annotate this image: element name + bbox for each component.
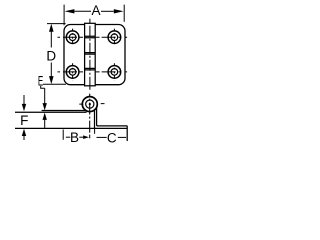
dim A extension line right (123, 5, 125, 22)
dim B left extension (62, 130, 64, 140)
dim D extension line top (47, 23, 66, 25)
hinge barrel (85, 23, 96, 86)
dim D extension line bottom (43, 83, 66, 85)
dim D line + arrows (50, 31, 52, 78)
dim F line + arrows (23, 95, 25, 140)
dim A line left + arrow (75, 10, 92, 12)
knuckle joint 2 (85, 53, 96, 55)
dim A extension line left (63, 5, 65, 26)
barrel centerline (89, 19, 91, 91)
side view drop left surface (94, 110, 96, 128)
side view bottom line / F bottom extension (15, 127, 127, 129)
svg-text:A: A (91, 3, 100, 18)
knuckle joint 1 (85, 36, 96, 37)
side view bottom leaf end cap + dim C right extension (126, 126, 128, 141)
hole top-left (66, 31, 79, 44)
svg-text:F: F (20, 113, 28, 128)
dim E leader (41, 86, 45, 88)
side view barrel circle (82, 97, 97, 112)
dim B line (66, 136, 71, 138)
dim E line + arrows (44, 88, 46, 128)
dim C line left (97, 136, 107, 138)
plate outline top view (64, 25, 125, 85)
node hole centerline col right (113, 29, 115, 46)
side view top leaf surface top (42, 110, 86, 112)
svg-text:B: B (70, 130, 79, 145)
node hole centerline row top (58, 29, 131, 81)
node hole centerline row bottom (58, 71, 85, 73)
side view pin centerline (89, 94, 91, 139)
node hole centerline col left (72, 29, 74, 46)
hole top-right (108, 31, 121, 44)
side view pin centerline horizontal dashes (79, 103, 104, 106)
dim B arrow (79, 136, 84, 138)
svg-text:D: D (46, 48, 56, 63)
svg-text:E: E (38, 73, 43, 88)
dim C left extension (94, 129, 96, 134)
side view top leaf surface bottom / F top extension (15, 111, 87, 113)
hole bottom-right (108, 66, 121, 79)
dim C line right (118, 136, 126, 138)
svg-text:C: C (107, 130, 117, 145)
side view drop right surface + bottom leaf top surface (97, 108, 128, 126)
hole bottom-left (66, 66, 79, 79)
dim A line right + arrow (101, 10, 114, 12)
knuckle joint 3 (85, 68, 96, 70)
